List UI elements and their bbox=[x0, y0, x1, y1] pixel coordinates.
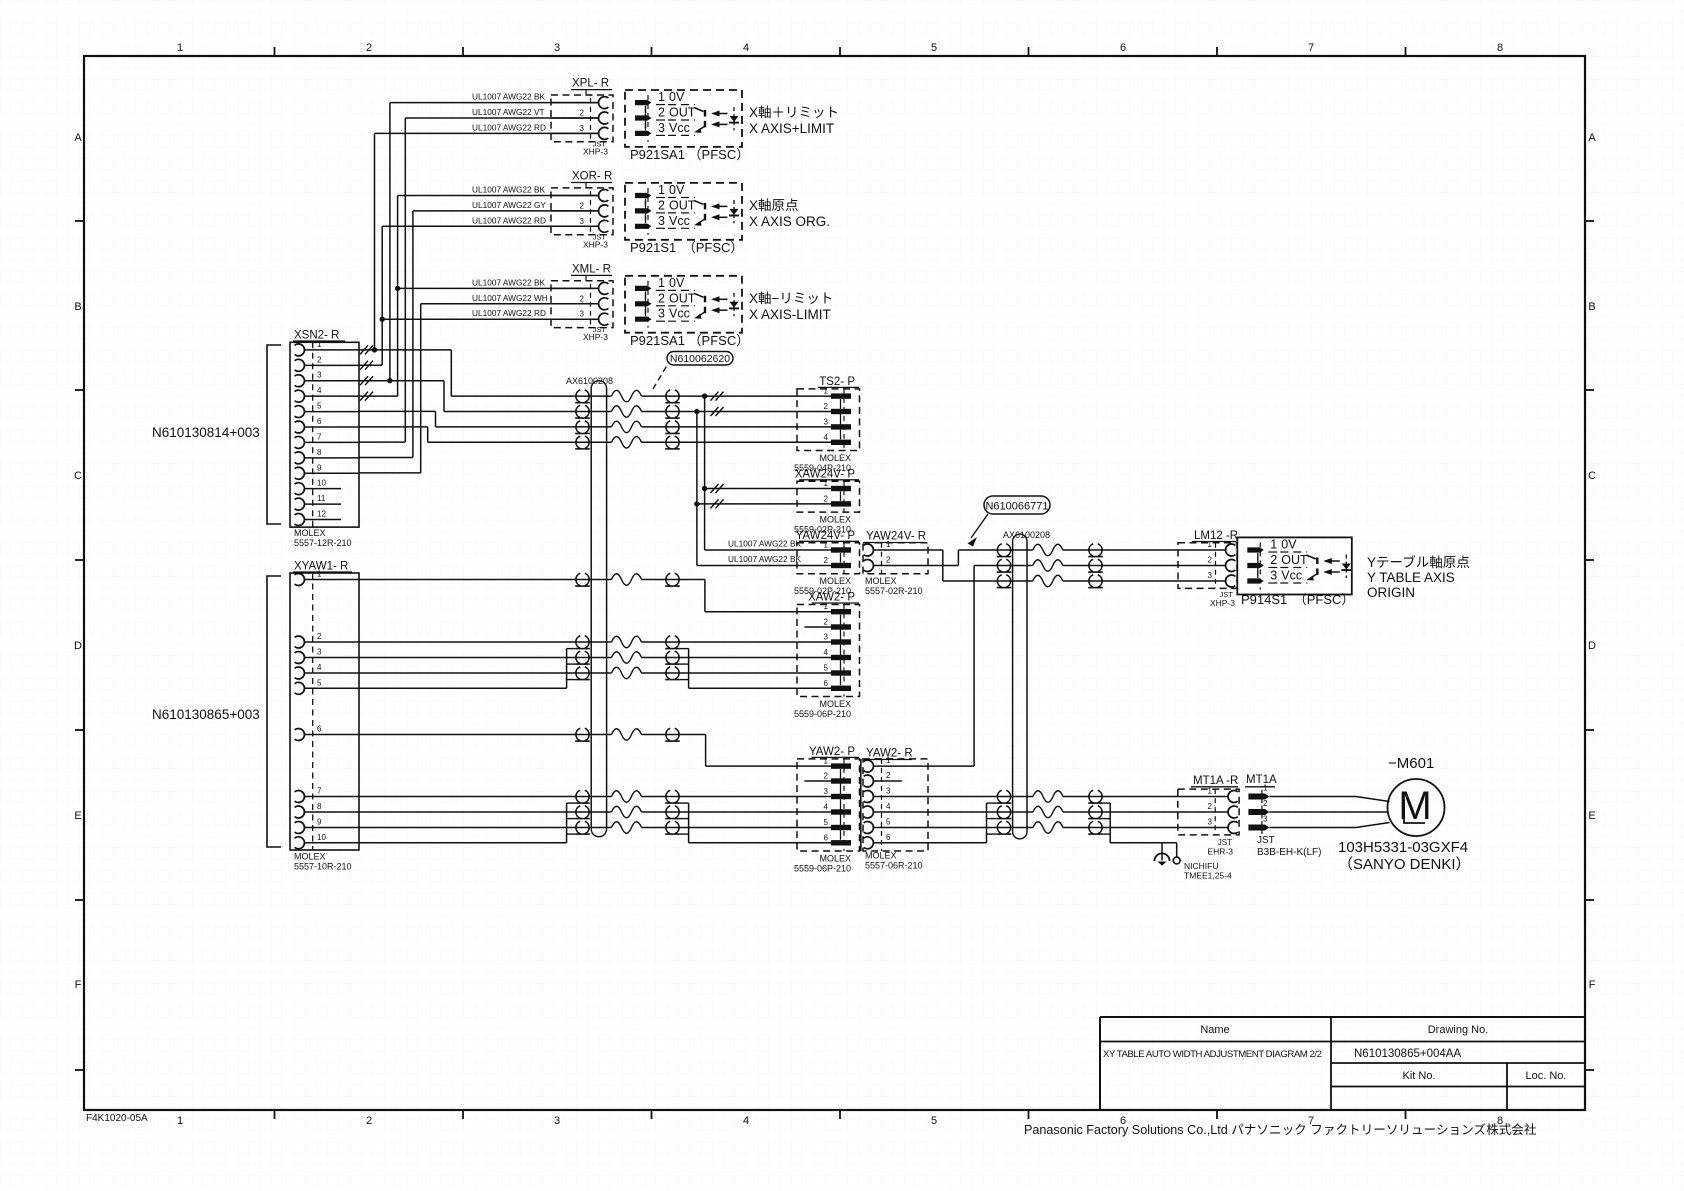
svg-text:4: 4 bbox=[743, 42, 749, 54]
svg-text:P921SA1 （PFSC）: P921SA1 （PFSC） bbox=[630, 333, 749, 348]
svg-text:UL1007 AWG22 BK: UL1007 AWG22 BK bbox=[728, 539, 801, 549]
svg-text:1: 1 bbox=[1270, 538, 1277, 552]
svg-text:XHP-3: XHP-3 bbox=[583, 332, 608, 342]
shield drain (YAW2-R pin6) to earth bbox=[882, 842, 987, 844]
svg-text:F4K1020-05A: F4K1020-05A bbox=[86, 1113, 148, 1124]
connector XSN2-R (MOLEX 5557-12R-210) bbox=[290, 330, 359, 549]
svg-text:2: 2 bbox=[366, 42, 372, 54]
wire: XSN2 pin6 to cable row4 bbox=[359, 426, 428, 428]
svg-text:B3B-EH-K(LF): B3B-EH-K(LF) bbox=[1257, 847, 1321, 858]
motor M601 (SANYO DENKI 103H5331-03GXF4) bbox=[1338, 755, 1471, 873]
cable wires rows 1-4 (XSN2 to TS2-P) bbox=[451, 395, 611, 397]
svg-text:8: 8 bbox=[317, 802, 322, 811]
svg-text:3: 3 bbox=[317, 371, 322, 380]
svg-text:3: 3 bbox=[580, 310, 585, 319]
wire: XPL VT trunk (XSN2 pin7 OUT) bbox=[404, 118, 406, 442]
svg-text:C: C bbox=[1588, 470, 1596, 482]
svg-text:ORIGIN: ORIGIN bbox=[1367, 585, 1415, 600]
wire: XSN2 pin2 to RD trunk bbox=[359, 364, 382, 366]
svg-text:3: 3 bbox=[824, 787, 829, 796]
XAW2-P pin2 n.c. stub bbox=[804, 626, 831, 628]
svg-text:XY TABLE AUTO WIDTH ADJUSTMENT: XY TABLE AUTO WIDTH ADJUSTMENT DIAGRAM 2… bbox=[1103, 1049, 1322, 1060]
svg-text:6: 6 bbox=[824, 679, 829, 688]
svg-text:LM12 -R: LM12 -R bbox=[1194, 530, 1238, 542]
svg-text:2: 2 bbox=[317, 355, 322, 364]
svg-text:9: 9 bbox=[317, 463, 322, 472]
svg-text:E: E bbox=[74, 810, 81, 822]
svg-text:X軸＋リミット: X軸＋リミット bbox=[749, 105, 839, 120]
wire: XSN2 pin5 to cable row3 bbox=[359, 410, 436, 412]
shield drain left (XYAW1 pin5) bbox=[359, 687, 567, 689]
svg-text:2: 2 bbox=[824, 618, 829, 627]
svg-text:3: 3 bbox=[1270, 569, 1277, 583]
YAW2-P pin2 n.c. stub bbox=[804, 780, 831, 782]
wires: XYAW1 pins2-4 to XAW2-P pins3-5 bbox=[359, 641, 612, 643]
connector LM12-R (JST XHP-3) bbox=[1178, 530, 1238, 608]
svg-text:2: 2 bbox=[658, 106, 665, 120]
svg-text:XHP-3: XHP-3 bbox=[583, 146, 608, 156]
svg-text:1: 1 bbox=[177, 1115, 183, 1127]
connector XOR- R (JST XHP-3) bbox=[551, 171, 613, 250]
svg-text:EHR-3: EHR-3 bbox=[1207, 847, 1233, 857]
svg-text:5559-06P-210: 5559-06P-210 bbox=[794, 864, 851, 874]
svg-text:Yテーブル軸原点: Yテーブル軸原点 bbox=[1367, 554, 1470, 570]
connector XML- R (JST XHP-3) bbox=[551, 263, 613, 342]
svg-text:8: 8 bbox=[317, 448, 322, 457]
svg-text:XYAW1- R: XYAW1- R bbox=[294, 561, 348, 573]
connector YAW2-R (MOLEX 5557-06R-210) bbox=[863, 748, 928, 871]
svg-text:UL1007 AWG22 RD: UL1007 AWG22 RD bbox=[472, 215, 546, 225]
wire: XSN2 pin8 to GY trunk bbox=[359, 457, 413, 459]
svg-text:4: 4 bbox=[317, 386, 322, 395]
svg-text:D: D bbox=[74, 640, 82, 652]
svg-text:XSN2- R: XSN2- R bbox=[294, 330, 339, 342]
svg-text:UL1007 AWG22 BK: UL1007 AWG22 BK bbox=[472, 92, 545, 102]
svg-text:MOLEX: MOLEX bbox=[865, 851, 897, 861]
svg-text:MT1A: MT1A bbox=[1246, 774, 1277, 786]
connector XAW2-P (MOLEX 5559-06P-210) bbox=[794, 592, 860, 720]
svg-text:4: 4 bbox=[824, 803, 829, 812]
svg-text:UL1007 AWG22 WH: UL1007 AWG22 WH bbox=[472, 293, 548, 303]
svg-text:N610066771: N610066771 bbox=[985, 501, 1048, 513]
photo-sensor U: X AXIS ORG (P921S1) bbox=[625, 183, 742, 240]
svg-text:UL1007 AWG22 BK: UL1007 AWG22 BK bbox=[472, 277, 545, 287]
svg-text:UL1007 AWG22 VT: UL1007 AWG22 VT bbox=[472, 107, 545, 117]
svg-text:X軸−リミット: X軸−リミット bbox=[749, 291, 833, 306]
wire: +24V feed vertical (row1 to YAW24V-P pin1) bbox=[704, 396, 706, 550]
svg-text:Vcc: Vcc bbox=[669, 121, 690, 135]
svg-text:MOLEX: MOLEX bbox=[294, 852, 326, 862]
svg-text:2: 2 bbox=[658, 198, 665, 212]
svg-text:Y TABLE AXIS: Y TABLE AXIS bbox=[1367, 570, 1455, 585]
svg-text:Drawing No.: Drawing No. bbox=[1428, 1024, 1489, 1036]
svg-text:5557-02R-210: 5557-02R-210 bbox=[865, 586, 923, 596]
svg-text:N610130814+003: N610130814+003 bbox=[152, 425, 260, 440]
svg-text:2: 2 bbox=[317, 632, 322, 641]
cable sheath AX6100208 (left) bbox=[590, 388, 592, 829]
connector MT1A (JST B3B-EH-K) bbox=[1245, 774, 1321, 858]
svg-text:1: 1 bbox=[658, 90, 665, 104]
svg-text:MOLEX: MOLEX bbox=[819, 576, 851, 586]
svg-text:OUT: OUT bbox=[669, 106, 696, 120]
svg-text:6: 6 bbox=[824, 833, 829, 842]
svg-text:MOLEX: MOLEX bbox=[819, 699, 851, 709]
svg-text:5557-10R-210: 5557-10R-210 bbox=[294, 862, 352, 872]
svg-text:Vcc: Vcc bbox=[669, 214, 690, 228]
svg-text:N610130865+003: N610130865+003 bbox=[152, 707, 260, 722]
svg-text:P921S1 （PFSC）: P921S1 （PFSC） bbox=[630, 240, 743, 255]
connector MT1A-R (JST EHR-3) bbox=[1178, 775, 1239, 857]
connector YAW24V-P (MOLEX 5559-02P-210) bbox=[794, 530, 860, 596]
svg-text:6: 6 bbox=[886, 833, 891, 842]
svg-text:UL1007 AWG22 GY: UL1007 AWG22 GY bbox=[472, 200, 546, 210]
bracket for XYAW1-R harness bbox=[267, 576, 281, 847]
wire: XSN2 pin3 to cable row2 bbox=[359, 380, 444, 382]
shield drain left (XYAW1 pin10) bbox=[359, 842, 567, 844]
svg-text:5: 5 bbox=[317, 678, 322, 687]
svg-text:0V: 0V bbox=[669, 276, 685, 290]
svg-text:−M601: −M601 bbox=[1388, 755, 1434, 772]
wire: XPL BK trunk (XSN2 pin3 0V) bbox=[389, 103, 391, 381]
svg-text:3: 3 bbox=[554, 1115, 560, 1127]
svg-text:3: 3 bbox=[1208, 571, 1213, 580]
svg-text:D: D bbox=[1588, 640, 1596, 652]
shield drain right (YAW2-P pin6) bbox=[688, 803, 690, 843]
wire: XAW24V-P pin1 stub bbox=[705, 488, 831, 490]
connector YAW2-P (MOLEX 5559-06P-210) bbox=[794, 746, 860, 874]
svg-text:5: 5 bbox=[824, 664, 829, 673]
svg-text:0V: 0V bbox=[669, 90, 685, 104]
svg-text:3: 3 bbox=[658, 307, 665, 321]
wire: XOR GY trunk (XSN2 pin8 OUT) bbox=[412, 211, 414, 458]
svg-text:2: 2 bbox=[580, 201, 585, 210]
svg-text:XML- R: XML- R bbox=[572, 263, 611, 275]
svg-text:YAW2- R: YAW2- R bbox=[866, 748, 913, 760]
mating face line YAW2 bbox=[860, 759, 862, 851]
svg-text:A: A bbox=[74, 132, 82, 144]
svg-text:XAW2- P: XAW2- P bbox=[808, 592, 855, 604]
crimp terminal NICHIFU TMEE1.25-4 bbox=[1173, 857, 1180, 864]
svg-text:6: 6 bbox=[317, 725, 322, 734]
svg-text:TS2- P: TS2- P bbox=[819, 376, 855, 388]
connector YAW24V-R (MOLEX 5557-02R-210) bbox=[863, 531, 928, 597]
svg-text:7: 7 bbox=[1308, 42, 1314, 54]
svg-text:4: 4 bbox=[824, 648, 829, 657]
svg-text:4: 4 bbox=[743, 1115, 749, 1127]
svg-text:YAW24V- R: YAW24V- R bbox=[866, 531, 926, 543]
svg-text:Name: Name bbox=[1200, 1024, 1229, 1036]
svg-text:（SANYO DENKI）: （SANYO DENKI） bbox=[1338, 856, 1471, 873]
svg-text:N610130865+004AA: N610130865+004AA bbox=[1354, 1048, 1461, 1060]
svg-text:1: 1 bbox=[1208, 787, 1213, 796]
svg-text:3: 3 bbox=[824, 417, 829, 426]
svg-text:Panasonic Factory Solutions Co: Panasonic Factory Solutions Co.,Ltd パナソニ… bbox=[1024, 1122, 1537, 1137]
svg-text:TMEE1,25-4: TMEE1,25-4 bbox=[1184, 871, 1232, 881]
svg-text:4: 4 bbox=[886, 802, 891, 811]
svg-text:6: 6 bbox=[317, 417, 322, 426]
svg-text:5: 5 bbox=[931, 1115, 937, 1127]
svg-text:AX6100208: AX6100208 bbox=[1003, 530, 1050, 540]
bracket for XSN2-R harness bbox=[267, 345, 281, 524]
svg-text:2: 2 bbox=[366, 1115, 372, 1127]
wire: YAW24V-R pin2 to right-cable row1 bbox=[882, 565, 959, 567]
svg-text:8: 8 bbox=[1497, 42, 1503, 54]
svg-text:OUT: OUT bbox=[1281, 553, 1308, 567]
svg-text:MOLEX: MOLEX bbox=[819, 453, 851, 463]
title block bbox=[1100, 1016, 1585, 1018]
svg-text:4: 4 bbox=[824, 433, 829, 442]
svg-text:7: 7 bbox=[317, 787, 322, 796]
svg-text:3: 3 bbox=[580, 217, 585, 226]
svg-text:1: 1 bbox=[658, 183, 665, 197]
svg-text:3: 3 bbox=[580, 124, 585, 133]
wire: XAW24V-P pin2 stub bbox=[697, 503, 831, 505]
wire: XSN2 pin7 to VT trunk bbox=[359, 441, 405, 443]
connector XAW24V-P (MOLEX 5559-02P-210) bbox=[794, 468, 860, 534]
svg-text:1: 1 bbox=[658, 276, 665, 290]
svg-text:X軸原点: X軸原点 bbox=[749, 198, 799, 213]
svg-text:6: 6 bbox=[1120, 42, 1126, 54]
wire: XOR/XML BK trunk (XSN2 pin4) bbox=[397, 196, 399, 397]
svg-text:5: 5 bbox=[886, 818, 891, 827]
svg-text:2: 2 bbox=[824, 772, 829, 781]
wire: XSN2 pin9 to WH trunk bbox=[359, 472, 421, 474]
wire: XYAW1 pin6 to YAW2-P pin1 bbox=[359, 734, 612, 736]
svg-text:B: B bbox=[74, 301, 81, 313]
svg-text:103H5331-03GXF4: 103H5331-03GXF4 bbox=[1338, 839, 1468, 856]
svg-text:XOR- R: XOR- R bbox=[572, 171, 612, 183]
callout N610066771 bbox=[984, 496, 1050, 514]
cable sheath AX6100208 (right) bbox=[1012, 541, 1014, 831]
connector XYAW1-R (MOLEX 5557-10R-210) bbox=[290, 561, 359, 872]
svg-text:YAW2- P: YAW2- P bbox=[809, 746, 855, 758]
svg-text:MOLEX: MOLEX bbox=[294, 528, 326, 538]
wire: XSN2 pin4 to BK trunk bbox=[359, 395, 398, 397]
svg-text:JST: JST bbox=[1257, 835, 1275, 846]
svg-text:3: 3 bbox=[317, 648, 322, 657]
svg-text:3: 3 bbox=[658, 214, 665, 228]
svg-text:MT1A -R: MT1A -R bbox=[1193, 775, 1238, 787]
svg-text:5: 5 bbox=[824, 818, 829, 827]
svg-text:2: 2 bbox=[1208, 556, 1213, 565]
svg-text:XHP-3: XHP-3 bbox=[583, 239, 608, 249]
connector TS2-P (MOLEX 5559-04P-210) bbox=[794, 376, 860, 473]
svg-text:5: 5 bbox=[931, 42, 937, 54]
svg-text:3: 3 bbox=[554, 42, 560, 54]
svg-text:N610062620: N610062620 bbox=[670, 353, 730, 365]
svg-text:Vcc: Vcc bbox=[1281, 569, 1302, 583]
svg-text:3: 3 bbox=[658, 121, 665, 135]
svg-text:5557-06R-210: 5557-06R-210 bbox=[865, 861, 923, 871]
svg-text:X AXIS ORG.: X AXIS ORG. bbox=[749, 214, 830, 229]
svg-text:2: 2 bbox=[824, 556, 829, 565]
svg-text:P914S1 （PFSC）: P914S1 （PFSC） bbox=[1241, 592, 1354, 607]
photo-sensor U: X AXIS +LIMIT (P921SA1) bbox=[625, 90, 742, 147]
svg-text:Loc. No.: Loc. No. bbox=[1526, 1070, 1567, 1082]
svg-text:1: 1 bbox=[177, 42, 183, 54]
svg-text:MOLEX: MOLEX bbox=[819, 515, 851, 525]
svg-text:2: 2 bbox=[824, 494, 829, 503]
svg-text:5: 5 bbox=[317, 402, 322, 411]
svg-text:7: 7 bbox=[317, 432, 322, 441]
svg-text:MOLEX: MOLEX bbox=[865, 576, 897, 586]
svg-text:2: 2 bbox=[1208, 802, 1213, 811]
wire: YAW24V-R pin1 to right-cable row3 bbox=[882, 549, 943, 551]
shield drain right (XAW2-P pin6) bbox=[688, 648, 690, 688]
svg-text:YAW24V- P: YAW24V- P bbox=[796, 530, 856, 542]
wires: XYAW1 pins7-9 to YAW2-P pins3-5 bbox=[359, 796, 612, 798]
svg-text:12: 12 bbox=[317, 510, 326, 519]
svg-text:F: F bbox=[1589, 979, 1596, 991]
svg-text:C: C bbox=[74, 470, 82, 482]
svg-text:3: 3 bbox=[1263, 815, 1268, 824]
YAW2-R pin2 n.c. stub bbox=[882, 780, 902, 782]
wire: XPL RD trunk (XSN2 pin1 Vcc) bbox=[374, 133, 376, 350]
svg-text:P921SA1 （PFSC）: P921SA1 （PFSC） bbox=[630, 147, 749, 162]
svg-text:3: 3 bbox=[1208, 818, 1213, 827]
svg-text:Kit No.: Kit No. bbox=[1402, 1070, 1435, 1082]
photo-sensor P914S1 (Y TABLE AXIS ORIGIN) bbox=[1237, 537, 1352, 594]
svg-text:2: 2 bbox=[658, 291, 665, 305]
svg-text:AX6100208: AX6100208 bbox=[566, 376, 613, 386]
border frame bbox=[84, 56, 1585, 1110]
callout N610062620 bbox=[653, 362, 669, 389]
svg-text:X AXIS-LIMIT: X AXIS-LIMIT bbox=[749, 307, 831, 322]
svg-text:NICHIFU: NICHIFU bbox=[1184, 861, 1218, 871]
svg-text:2: 2 bbox=[580, 109, 585, 118]
svg-text:10: 10 bbox=[317, 479, 326, 488]
svg-text:9: 9 bbox=[317, 818, 322, 827]
svg-text:2: 2 bbox=[886, 556, 891, 565]
svg-text:E: E bbox=[1588, 810, 1595, 822]
earth ground symbol bbox=[1161, 843, 1163, 861]
svg-text:10: 10 bbox=[317, 833, 326, 842]
wire: XML WH trunk (XSN2 pin9 OUT) bbox=[420, 304, 422, 473]
wire: 0V feed vertical (row2 to YAW24V-P pin2) bbox=[696, 412, 698, 566]
svg-text:2: 2 bbox=[886, 771, 891, 780]
photo-sensor U: X AXIS -LIMIT (P921SA1) bbox=[625, 276, 742, 333]
svg-text:XAW24V- P: XAW24V- P bbox=[795, 468, 856, 480]
svg-text:UL1007 AWG22 BK: UL1007 AWG22 BK bbox=[472, 185, 545, 195]
svg-text:3: 3 bbox=[824, 633, 829, 642]
wire: YAW2-R pin1 to riser bbox=[882, 765, 975, 767]
svg-text:5557-12R-210: 5557-12R-210 bbox=[294, 538, 352, 548]
svg-text:UL1007 AWG22 RD: UL1007 AWG22 RD bbox=[472, 308, 546, 318]
svg-text:0V: 0V bbox=[669, 183, 685, 197]
svg-text:OUT: OUT bbox=[669, 291, 696, 305]
svg-text:OUT: OUT bbox=[669, 198, 696, 212]
svg-text:3: 3 bbox=[886, 787, 891, 796]
svg-text:Vcc: Vcc bbox=[669, 307, 690, 321]
svg-text:2: 2 bbox=[824, 402, 829, 411]
svg-text:11: 11 bbox=[317, 494, 326, 503]
svg-text:2: 2 bbox=[1263, 799, 1268, 808]
svg-text:X AXIS+LIMIT: X AXIS+LIMIT bbox=[749, 121, 834, 136]
wires: YAW2-R pins3-5 to MT1A-R bbox=[882, 796, 1034, 798]
svg-text:UL1007 AWG22 RD: UL1007 AWG22 RD bbox=[472, 122, 546, 132]
svg-text:4: 4 bbox=[317, 663, 322, 672]
svg-text:0V: 0V bbox=[1281, 538, 1297, 552]
wires MT1A to motor bbox=[1269, 797, 1389, 802]
wire: XOR/XML RD trunk (XSN2 pin2) bbox=[381, 226, 383, 365]
svg-text:MOLEX: MOLEX bbox=[819, 854, 851, 864]
svg-text:F: F bbox=[75, 979, 82, 991]
right cable upper rows to LM12-R bbox=[1033, 544, 1063, 556]
svg-text:B: B bbox=[1588, 301, 1595, 313]
svg-text:A: A bbox=[1588, 132, 1596, 144]
svg-text:XHP-3: XHP-3 bbox=[1210, 598, 1235, 608]
wire: XSN2 pin1 to cable row1 bbox=[359, 349, 451, 351]
svg-text:5559-06P-210: 5559-06P-210 bbox=[794, 709, 851, 719]
svg-text:XPL- R: XPL- R bbox=[572, 78, 609, 90]
svg-text:2: 2 bbox=[580, 294, 585, 303]
wire: XYAW1 pin1 to XAW2-P pin1 bbox=[359, 579, 612, 581]
svg-text:UL1007 AWG22 BK: UL1007 AWG22 BK bbox=[728, 554, 801, 564]
connector XPL- R (JST XHP-3) bbox=[551, 78, 613, 157]
wire: YAW2-R pin1 riser to right-cable row2 bbox=[973, 566, 975, 767]
svg-text:2: 2 bbox=[1270, 553, 1277, 567]
